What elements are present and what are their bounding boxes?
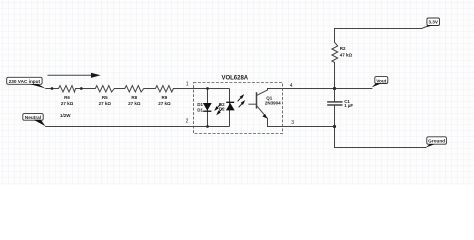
svg-text:1: 1 <box>186 82 189 88</box>
svg-text:2: 2 <box>186 119 189 125</box>
svg-text:47 kΩ: 47 kΩ <box>340 52 353 57</box>
svg-text:4: 4 <box>290 83 293 89</box>
svg-text:3: 3 <box>291 120 294 126</box>
svg-text:27 kΩ: 27 kΩ <box>128 101 141 106</box>
svg-text:R5: R5 <box>102 95 108 100</box>
svg-text:230 VAC input: 230 VAC input <box>9 79 41 84</box>
svg-text:1/2W: 1/2W <box>60 113 71 118</box>
svg-text:Ground: Ground <box>428 138 445 143</box>
svg-text:R2: R2 <box>340 46 346 51</box>
svg-text:1 µF: 1 µF <box>344 103 353 108</box>
svg-text:3.3V: 3.3V <box>428 20 439 25</box>
svg-text:27 kΩ: 27 kΩ <box>99 101 112 106</box>
svg-text:D1: D1 <box>197 107 203 112</box>
svg-text:D2: D2 <box>219 106 225 111</box>
svg-text:27 kΩ: 27 kΩ <box>158 101 171 106</box>
svg-text:Vout: Vout <box>376 79 387 84</box>
svg-text:2N3904: 2N3904 <box>265 101 281 106</box>
svg-text:R6: R6 <box>64 95 70 100</box>
svg-text:27 kΩ: 27 kΩ <box>61 101 74 106</box>
svg-text:Q1: Q1 <box>266 95 273 100</box>
svg-text:R8: R8 <box>131 95 137 100</box>
svg-text:Neutral: Neutral <box>25 115 41 120</box>
svg-text:VOL628A: VOL628A <box>221 75 248 81</box>
svg-text:R9: R9 <box>162 95 168 100</box>
